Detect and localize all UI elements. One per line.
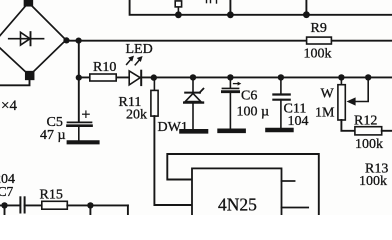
svg-text:4N25: 4N25 (218, 195, 257, 215)
optocoupler U1 4N25 (192, 168, 282, 220)
wire corner down at x=127.9 (127, 205, 129, 215)
svg-text:R9: R9 (311, 21, 327, 36)
diode inside bridge (9, 32, 44, 45)
svg-text:C7: C7 (0, 184, 14, 199)
svg-text:1M: 1M (315, 106, 335, 121)
wire secondary rail y=77.4 (79, 76, 392, 78)
node F (280.9,77.4) C11 branch (278, 74, 284, 80)
node E (230.4,77.4) C6 branch (227, 74, 233, 80)
svg-text:LED: LED (126, 42, 153, 57)
svg-text:W: W (321, 87, 335, 102)
svg-text:100k: 100k (304, 47, 332, 62)
labels R13 100k (component off-page) (359, 162, 388, 190)
wire stub down from node J (89, 205, 91, 215)
resistor R9 (304, 21, 332, 62)
node on top rail at x=230.4 (227, 11, 234, 18)
node on top rail at x=178.4 (175, 11, 182, 18)
resistor R11 (119, 77, 159, 122)
ground bar for DW1 (182, 129, 207, 134)
node I (4.5,205.4) (1, 202, 7, 208)
wire vertical from node A down to C5 (78, 41, 80, 122)
node on top rail at x=306.4 (303, 11, 310, 18)
wire left edge to C7 (0, 204, 19, 206)
resistor R12 (354, 114, 392, 153)
svg-text:100k: 100k (355, 137, 383, 152)
resistor R10 (90, 60, 117, 81)
capacitor C7 plates (20, 197, 24, 212)
node H (368.2,77.4) wiper feed (365, 74, 371, 80)
label x4 (1, 98, 17, 114)
node G (341.4,77.4) potentiometer top (338, 74, 344, 80)
svg-text:104: 104 (288, 114, 309, 129)
node J (90.4,205.4) (87, 202, 93, 208)
wire R11 bottom to 4N25 pin 2 (154, 116, 192, 205)
wire pot bottom to R12 (341, 120, 355, 131)
wire R15 to corner (67, 204, 128, 206)
capacitor C5 (electrolytic) (40, 111, 92, 143)
wire C7 to R15 (25, 204, 42, 206)
capacitor C6 (electrolytic) (222, 77, 269, 130)
wire top rail y=14.8 with corner up (130, 0, 392, 15)
node D (193,77.4) zener branch (190, 74, 196, 80)
resistor R15 (40, 188, 68, 210)
svg-text:C6: C6 (241, 89, 257, 104)
node at bridge right vertex (63, 37, 69, 43)
labels 204 / C7 (0, 172, 15, 199)
ground bar for C11 (268, 128, 292, 133)
svg-text:47 µ: 47 µ (40, 128, 66, 143)
wiper arrow of W (347, 77, 369, 105)
svg-text:R12: R12 (354, 114, 377, 129)
svg-text:R15: R15 (40, 188, 63, 203)
wire main rail y=40.7 (66, 40, 392, 42)
node A (78.5,40.7) (76, 38, 82, 44)
pin 5 stub right upper (282, 180, 295, 182)
wire stub up from x=230.4 (229, 0, 231, 15)
ground bar for C5 (69, 140, 98, 144)
clipped text fragment at top edge (207, 0, 217, 3)
zener diode DW1 (158, 77, 204, 135)
svg-text:100k: 100k (359, 174, 387, 189)
node B (78.8,77.4) (76, 75, 82, 81)
wire stub up from x=306.4 (305, 0, 307, 15)
wire bridge bottom to left edge (0, 76, 30, 86)
svg-text:×4: ×4 (1, 98, 17, 114)
svg-text:100 µ: 100 µ (237, 105, 270, 120)
svg-text:20k: 20k (126, 108, 147, 123)
svg-text:R10: R10 (93, 60, 116, 75)
potentiometer W 1M (315, 77, 345, 120)
wire stub down from node I (4, 205, 6, 215)
node C (154,77.4) LED cathode junction (151, 74, 157, 80)
pin 4 stub right lower (282, 207, 309, 209)
bridge rectifier (diamond) (0, 0, 66, 79)
pin stub with open square terminal (175, 1, 181, 15)
capacitor C11 (273, 77, 308, 130)
wire step: 4N25 pin1 to right dropdown (167, 154, 318, 215)
LED (126, 42, 153, 85)
ground bar for C6 (220, 129, 244, 134)
